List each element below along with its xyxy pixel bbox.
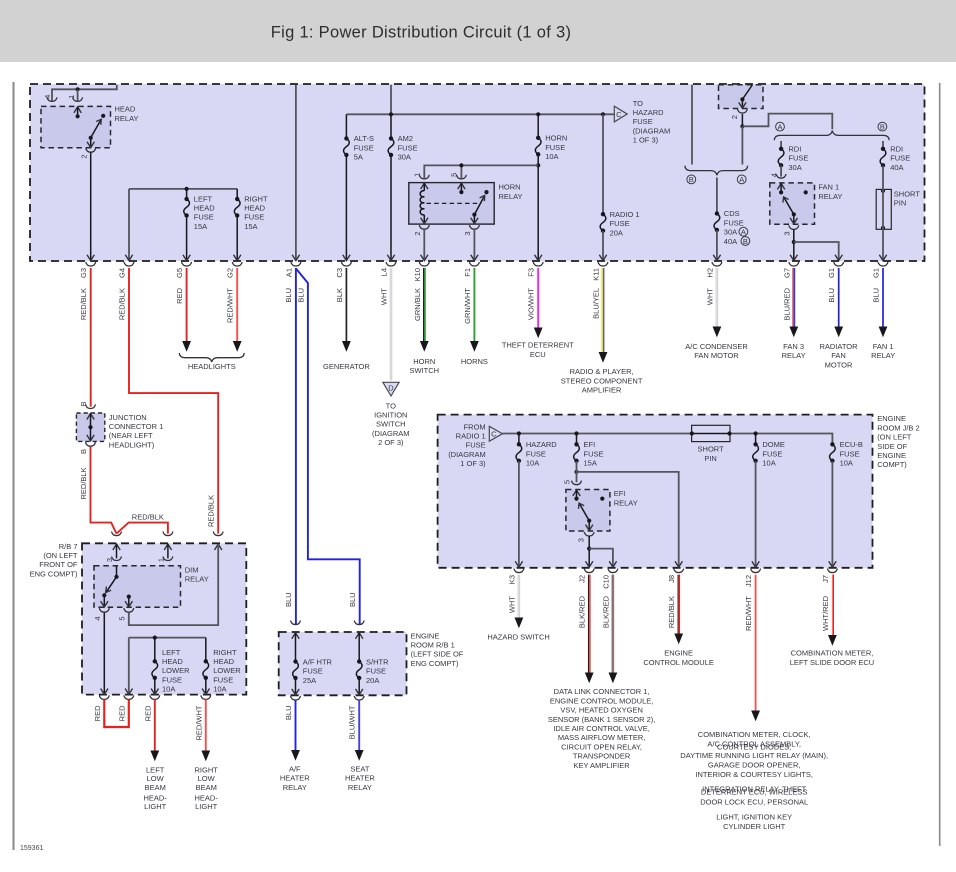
fuse RIGHT HEAD FUSE 15A: [234, 197, 240, 218]
svg-text:TO: TO: [633, 99, 643, 108]
left page border: [13, 82, 15, 850]
svg-text:WHT: WHT: [705, 288, 714, 305]
svg-text:ENGINE: ENGINE: [877, 451, 906, 460]
svg-text:BLU/WHT: BLU/WHT: [348, 705, 357, 739]
svg-text:KEY AMPLIFIER: KEY AMPLIFIER: [574, 761, 631, 770]
svg-text:FUSE: FUSE: [244, 213, 264, 222]
svg-text:MASS AIRFLOW METER,: MASS AIRFLOW METER,: [558, 733, 646, 742]
svg-text:(LEFT SIDE OF: (LEFT SIDE OF: [411, 650, 464, 659]
svg-text:GENERATOR: GENERATOR: [323, 362, 370, 371]
MAIN TOP BOX: [30, 84, 925, 261]
svg-text:RED/BLK: RED/BLK: [667, 596, 676, 628]
svg-text:B: B: [79, 401, 88, 406]
connector L4: [386, 262, 396, 266]
connector J7: [828, 569, 838, 573]
svg-text:HEAD: HEAD: [194, 204, 215, 213]
node: hazard fuse junction: [517, 431, 521, 435]
svg-text:FUSE: FUSE: [610, 219, 630, 228]
fuse HAZARD FUSE 10A: [518, 434, 520, 445]
svg-text:(NEAR LEFT: (NEAR LEFT: [109, 431, 153, 440]
svg-text:RED: RED: [117, 705, 126, 721]
svg-text:HAZARD: HAZARD: [526, 440, 557, 449]
wire: G4 RED/BLK to R/B7: [129, 268, 218, 534]
svg-text:LOWER: LOWER: [213, 666, 241, 675]
wire: BLU/WHT to seat heater relay: [358, 700, 360, 750]
node: AM2 bus junction: [389, 112, 393, 116]
svg-text:(ON LEFT: (ON LEFT: [43, 551, 78, 560]
svg-text:1: 1: [156, 558, 165, 562]
svg-text:COMBINATION METER, CLOCK,: COMBINATION METER, CLOCK,: [698, 730, 811, 739]
svg-text:SHORT: SHORT: [894, 189, 921, 198]
node: efi pin3 branch junction: [587, 547, 591, 551]
node: EFI fuse junction: [574, 431, 578, 435]
svg-text:G7: G7: [782, 268, 791, 278]
fan1 relay pin4 contact: [777, 184, 784, 190]
svg-text:2 OF 3): 2 OF 3): [378, 438, 404, 447]
svg-text:FUSE: FUSE: [584, 449, 604, 458]
svg-text:LOW: LOW: [198, 774, 216, 783]
svg-text:2: 2: [413, 231, 422, 235]
svg-text:RELAY: RELAY: [871, 351, 895, 360]
svg-text:IGNITION: IGNITION: [374, 411, 407, 420]
svg-text:RDI: RDI: [788, 145, 801, 154]
svg-text:EFI: EFI: [614, 489, 626, 498]
wire: G7 BLU/RED to fan3 relay: [792, 268, 794, 327]
wire: K3 WHT to hazard switch: [518, 575, 520, 618]
svg-text:LOW: LOW: [147, 774, 165, 783]
svg-text:K11: K11: [592, 268, 601, 281]
wire: RED to left low beam: [154, 700, 156, 751]
svg-text:A: A: [777, 122, 782, 131]
svg-text:CYLINDER LIGHT: CYLINDER LIGHT: [723, 822, 786, 831]
svg-text:10A: 10A: [213, 685, 226, 694]
wire: G3 RED/BLK to junction connector: [90, 268, 92, 407]
svg-text:HEAD-: HEAD-: [195, 793, 219, 802]
svg-text:20A: 20A: [366, 676, 379, 685]
wire: radio fuse to K11 exit: [602, 231, 604, 260]
connector J2: [584, 569, 594, 573]
svg-text:WHT/RED: WHT/RED: [821, 595, 830, 631]
svg-text:4: 4: [769, 173, 778, 177]
wire: RDI40/short pin to G1 exit: [882, 166, 884, 260]
wire: L4 WHT to ignition switch: [390, 268, 392, 381]
svg-text:STEREO COMPONENT: STEREO COMPONENT: [561, 376, 643, 385]
svg-text:RELAY: RELAY: [499, 192, 523, 201]
svg-text:BLU: BLU: [284, 592, 293, 607]
svg-text:G1: G1: [872, 268, 881, 278]
node letter B (circled): [878, 122, 887, 131]
svg-text:LIGHT: LIGHT: [195, 802, 218, 811]
connector G3: [86, 262, 96, 266]
wire: K10 GRN/BLK to horn switch: [423, 268, 425, 341]
svg-text:DATA LINK CONNECTOR 1,: DATA LINK CONNECTOR 1,: [554, 687, 650, 696]
junction connector 1 box: [76, 413, 104, 441]
svg-text:INTERIOR & COURTESY LIGHTS,: INTERIOR & COURTESY LIGHTS,: [695, 770, 813, 779]
wire: main fuse bus: [346, 113, 614, 115]
wire: J2 BLK/RED to data link: [588, 575, 590, 673]
wire: head relay feed bus: [52, 85, 117, 102]
svg-text:LEFT: LEFT: [162, 648, 181, 657]
svg-text:GARAGE DOOR OPENER,: GARAGE DOOR OPENER,: [708, 761, 801, 770]
fuse HORN FUSE 10A: [537, 114, 539, 138]
relay DIM RELAY box: [94, 566, 181, 608]
svg-text:RADIO 1: RADIO 1: [456, 432, 486, 441]
svg-text:FUSE: FUSE: [840, 449, 860, 458]
wire: ecu-b fuse to J7 exit: [831, 461, 833, 566]
wire: entry1 to dim relay pin 3: [116, 544, 118, 558]
svg-text:2: 2: [80, 154, 89, 158]
wire: RED/BLK junction connector to R/B7: [91, 447, 117, 534]
fuse LEFT HEAD LOWER FUSE 10A: [154, 638, 156, 662]
efi relay pin 3: [588, 521, 590, 531]
connector entry 3 into R/B7: [213, 532, 223, 536]
svg-text:SWITCH: SWITCH: [410, 366, 440, 375]
svg-text:RIGHT: RIGHT: [195, 765, 219, 774]
wire: horn relay pin2 to K10 exit: [423, 229, 425, 260]
node: fan1 pin3 branch junction: [792, 240, 796, 244]
wire: J7 WHT/RED to combination meter: [831, 575, 833, 635]
svg-text:ROOM R/B 1: ROOM R/B 1: [411, 641, 455, 650]
svg-text:RADIO & PLAYER,: RADIO & PLAYER,: [570, 367, 634, 376]
relay HORN RELAY box: [409, 183, 494, 225]
svg-text:FUSE: FUSE: [788, 154, 808, 163]
connector symbol D to ignition switch: [383, 382, 399, 396]
svg-text:ENGINE: ENGINE: [877, 414, 906, 423]
short pin (fan circuit): [876, 189, 891, 229]
svg-text:HEADLIGHTS: HEADLIGHTS: [188, 362, 236, 371]
connector C10: [608, 569, 618, 573]
fuse EFI FUSE 15A: [576, 434, 578, 445]
pin 1 connector of head relay: [73, 97, 83, 101]
wire: efi pin3 to J2 exit: [588, 536, 590, 566]
svg-text:BLU: BLU: [284, 288, 293, 303]
svg-text:C10: C10: [601, 575, 610, 589]
svg-text:A/F HTR: A/F HTR: [303, 657, 333, 666]
pin 5 connector of horn relay: [457, 175, 467, 179]
svg-text:SIDE OF: SIDE OF: [877, 442, 907, 451]
pin 4 connector of fan1 relay: [776, 174, 786, 178]
svg-text:DAYTIME RUNNING LIGHT RELAY (M: DAYTIME RUNNING LIGHT RELAY (MAIN),: [680, 751, 828, 760]
svg-text:ENGINE CONTROL MODULE,: ENGINE CONTROL MODULE,: [550, 696, 653, 705]
wire: feed to RDI brace: [742, 114, 832, 130]
wire: left lower fuse to exit 3: [154, 678, 156, 693]
svg-text:30A: 30A: [788, 163, 801, 172]
svg-text:VIO/WHT: VIO/WHT: [527, 288, 536, 320]
connector entry 1 of R/B1: [291, 621, 301, 625]
dim relay pin3 contact: [116, 566, 118, 576]
svg-text:H2: H2: [705, 268, 714, 278]
efi relay pin5 contact: [573, 490, 580, 496]
connector entry 1 into R/B7: [112, 532, 122, 536]
wire: head relay pin2 to G3 exit: [90, 153, 92, 260]
node letter B (circled) left brace: [687, 175, 696, 184]
svg-text:FUSE: FUSE: [633, 117, 653, 126]
svg-text:K10: K10: [413, 268, 422, 281]
fan1 relay fixed contact: [804, 190, 808, 194]
wire: top right relay pin2 drop: [741, 114, 743, 126]
node: horn fuse bus junction: [536, 112, 540, 116]
svg-text:ROOM J/B 2: ROOM J/B 2: [877, 423, 920, 432]
connector G2: [232, 262, 242, 266]
svg-text:FUSE: FUSE: [526, 449, 546, 458]
svg-text:A/F: A/F: [289, 765, 301, 774]
svg-text:RED/BLK: RED/BLK: [79, 467, 88, 499]
svg-text:RED/BLK: RED/BLK: [118, 288, 127, 320]
wire: F3 VIO/WHT to theft deterrent ecu: [537, 268, 539, 328]
svg-text:G1: G1: [827, 268, 836, 278]
header bar: [0, 0, 956, 62]
connector G4: [124, 262, 134, 266]
svg-text:RADIO 1: RADIO 1: [610, 210, 640, 219]
horn relay pin5 contact: [458, 183, 465, 189]
svg-text:ENG COMPT): ENG COMPT): [30, 569, 78, 578]
svg-text:4: 4: [43, 95, 52, 99]
svg-text:CONTROL MODULE: CONTROL MODULE: [643, 658, 714, 667]
head relay switch: [89, 136, 93, 140]
svg-text:(ON LEFT: (ON LEFT: [877, 433, 912, 442]
svg-text:A: A: [741, 228, 746, 237]
efi relay switch: [579, 503, 589, 521]
wire: horn fuse to F3 exit: [537, 155, 539, 260]
pin 4 connector of head relay: [47, 97, 57, 101]
connector symbol C to hazard fuse: [614, 106, 627, 122]
head relay pin 2: [90, 138, 92, 147]
svg-text:FUSE: FUSE: [303, 667, 323, 676]
wire: pin4 to exit 1: [103, 613, 105, 694]
connector symbol C from radio 1 fuse: [489, 426, 502, 441]
dim relay pin 5: [127, 595, 131, 599]
svg-text:RIGHT: RIGHT: [244, 194, 268, 203]
svg-text:ECU: ECU: [530, 350, 546, 359]
svg-text:PIN: PIN: [704, 454, 717, 463]
svg-text:FUSE: FUSE: [545, 143, 565, 152]
horn relay switch: [472, 213, 476, 217]
wire: branch to C10 exit: [589, 549, 613, 566]
wire: A/F fuse to exit: [295, 677, 297, 694]
svg-text:40A: 40A: [724, 237, 737, 246]
svg-text:RELAY: RELAY: [185, 575, 209, 584]
wire: hazard fuse to K3 exit: [518, 461, 520, 566]
svg-text:15A: 15A: [584, 459, 597, 468]
fuse S/HTR FUSE 20A: [356, 633, 363, 639]
connector entry 2 into R/B7: [163, 532, 173, 536]
node letter A (circled): [776, 122, 785, 131]
svg-text:FUSE: FUSE: [890, 154, 910, 163]
svg-text:ALT-S: ALT-S: [354, 134, 374, 143]
svg-text:HORN: HORN: [545, 134, 567, 143]
svg-text:SENSOR (BANK 1 SENSOR 2),: SENSOR (BANK 1 SENSOR 2),: [548, 715, 656, 724]
connector G7: [789, 262, 799, 266]
svg-text:1: 1: [412, 173, 421, 177]
wire: K11 BLU/YEL to radio: [601, 268, 603, 352]
svg-text:1 OF 3): 1 OF 3): [633, 136, 659, 145]
head relay pin1 contact: [74, 107, 81, 113]
svg-text:4: 4: [93, 616, 102, 620]
svg-text:1: 1: [67, 95, 76, 99]
svg-text:15A: 15A: [194, 222, 207, 231]
svg-text:Fig 1: Power Distribution Circ: Fig 1: Power Distribution Circuit (1 of …: [271, 24, 572, 42]
node letter A (circled) left brace: [737, 175, 746, 184]
svg-text:HAZARD: HAZARD: [633, 108, 664, 117]
svg-text:B: B: [880, 122, 885, 131]
svg-text:SWITCH: SWITCH: [376, 420, 406, 429]
dim relay switch: [106, 577, 116, 592]
FOURTH BOX: ENGINE ROOM R/B 1: [279, 632, 407, 695]
wire: RED/WHT to right low beam: [205, 700, 207, 751]
svg-text:J12: J12: [744, 575, 753, 587]
svg-text:PIN: PIN: [894, 199, 907, 208]
svg-text:LIGHT, IGNITION KEY: LIGHT, IGNITION KEY: [716, 813, 792, 822]
svg-text:CIRCUIT OPEN RELAY,: CIRCUIT OPEN RELAY,: [561, 742, 642, 751]
svg-text:K3: K3: [507, 575, 516, 584]
svg-text:3: 3: [105, 558, 114, 562]
svg-text:DIM: DIM: [185, 565, 199, 574]
wire: top right relay junction to brace: [741, 126, 743, 164]
svg-text:5: 5: [563, 480, 572, 484]
svg-text:HEATER: HEATER: [345, 774, 375, 783]
svg-text:5: 5: [449, 173, 458, 177]
svg-text:SHORT: SHORT: [698, 445, 725, 454]
fuse RDI FUSE 30A: [780, 141, 782, 149]
svg-text:CDS: CDS: [724, 209, 740, 218]
connector J8: [674, 569, 684, 573]
svg-text:GRN/WHT: GRN/WHT: [463, 288, 472, 324]
svg-text:LEFT: LEFT: [194, 194, 213, 203]
svg-text:HAZARD SWITCH: HAZARD SWITCH: [487, 633, 550, 642]
svg-text:159361: 159361: [20, 845, 43, 852]
svg-text:FUSE: FUSE: [194, 213, 214, 222]
fuse CDS FUSE 30A/40A: [716, 178, 718, 214]
svg-text:(DIAGRAM: (DIAGRAM: [633, 126, 671, 135]
svg-text:10A: 10A: [162, 685, 175, 694]
connector exit 4 of R/B7: [201, 695, 211, 699]
fuse ALT-S FUSE 5A: [345, 114, 347, 138]
junction connector 1 internal wire: [87, 414, 94, 420]
connector exit 1 of R/B1: [291, 696, 301, 700]
fuse AM2 FUSE 30A: [390, 114, 392, 138]
connector F1: [470, 262, 480, 266]
brace: RDI fuse options A/B: [774, 131, 889, 141]
svg-text:DETERRENT ECU, WIRELESS: DETERRENT ECU, WIRELESS: [701, 788, 808, 797]
wire: horn relay pin3 to F1 exit: [473, 229, 475, 260]
connector B bottom of junction connector 1: [86, 442, 96, 446]
svg-text:C: C: [616, 110, 622, 119]
svg-text:B: B: [79, 449, 88, 454]
wire: G5 RED to headlights: [186, 268, 188, 341]
svg-text:10A: 10A: [762, 459, 775, 468]
short pin (J/B2): [692, 425, 730, 441]
wire: RDI30 to fan1 relay pin4: [780, 166, 782, 177]
svg-text:25A: 25A: [303, 676, 316, 685]
svg-text:RELAY: RELAY: [818, 192, 842, 201]
svg-text:G2: G2: [226, 268, 235, 278]
svg-text:F1: F1: [463, 268, 472, 277]
svg-text:J8: J8: [667, 575, 676, 583]
fuse LEFT HEAD FUSE 15A: [186, 189, 188, 199]
wire: head fuse feed bus: [129, 188, 237, 190]
top right relay pin 2: [741, 99, 743, 107]
svg-text:GRN/BLK: GRN/BLK: [413, 288, 422, 321]
connector F3: [533, 262, 543, 266]
svg-text:2: 2: [730, 115, 739, 119]
svg-text:RELAY: RELAY: [782, 351, 806, 360]
svg-text:BEAM: BEAM: [196, 783, 217, 792]
svg-text:HORN: HORN: [499, 183, 521, 192]
svg-text:RELAY: RELAY: [115, 114, 139, 123]
svg-text:BLU: BLU: [284, 706, 293, 721]
wire: J8 RED/BLK to engine control module: [677, 575, 679, 634]
svg-text:HEAD: HEAD: [115, 105, 136, 114]
svg-text:LOWER: LOWER: [162, 666, 190, 675]
svg-text:G3: G3: [79, 268, 88, 278]
svg-text:RELAY: RELAY: [348, 783, 372, 792]
svg-text:RELAY: RELAY: [614, 498, 638, 507]
top right relay switch: [743, 85, 752, 98]
svg-text:40A: 40A: [890, 163, 903, 172]
svg-text:J7: J7: [821, 575, 830, 583]
svg-text:HORN: HORN: [413, 357, 435, 366]
wire: RED u-link exits 1-2: [104, 700, 129, 728]
node: lower fuse bus junction: [153, 636, 157, 640]
node: radio fuse bus junction: [601, 112, 605, 116]
svg-text:COMPT): COMPT): [877, 460, 907, 469]
wire: RED/BLK split to second feed: [117, 523, 168, 534]
svg-text:20A: 20A: [610, 228, 623, 237]
svg-text:10A: 10A: [840, 459, 853, 468]
connector H2: [712, 262, 722, 266]
svg-text:LEFT: LEFT: [146, 765, 165, 774]
connector K10: [419, 262, 429, 266]
connector exit 2 of R/B7: [124, 695, 134, 699]
wire: A1 BLU right to R/B1: [296, 269, 360, 625]
relay (unlabeled, top right) box: [719, 85, 764, 109]
wire: A1 vertical feed: [295, 85, 297, 260]
svg-text:10A: 10A: [526, 459, 539, 468]
THIRD BOX: R/B 7: [82, 543, 246, 694]
fuse RDI FUSE 40A: [882, 141, 884, 149]
relay FAN 1 RELAY box: [770, 183, 815, 224]
wire: AM2 fuse to L4 exit: [390, 155, 392, 259]
svg-text:HEAD: HEAD: [244, 204, 265, 213]
node: pin2 junction: [740, 124, 744, 128]
connector K11: [598, 262, 608, 266]
wire: CDS fuse to H2 exit: [716, 230, 718, 259]
svg-text:TRANSPONDER: TRANSPONDER: [573, 752, 631, 761]
svg-text:BLU/RED: BLU/RED: [782, 287, 791, 320]
svg-text:TO: TO: [386, 401, 396, 410]
connector J12: [751, 569, 761, 573]
wire: branch to G1 radiator exit: [794, 242, 839, 260]
svg-text:FAN 1: FAN 1: [873, 342, 894, 351]
svg-text:R/B 7: R/B 7: [59, 542, 78, 551]
svg-text:30A: 30A: [724, 228, 737, 237]
svg-text:BLK/RED: BLK/RED: [601, 595, 610, 628]
svg-text:RED: RED: [93, 705, 102, 721]
connector exit 1 of R/B7: [99, 695, 109, 699]
svg-text:BLU/YEL: BLU/YEL: [592, 288, 601, 319]
svg-text:ENGINE: ENGINE: [664, 649, 693, 658]
svg-text:FAN: FAN: [831, 351, 846, 360]
svg-text:WHT: WHT: [507, 596, 516, 613]
wire: head relay pin1 drop: [77, 89, 79, 101]
wire: main feed bus in J/B2: [503, 434, 833, 445]
wire: right lower fuse to exit 4: [205, 678, 207, 693]
svg-text:RADIATOR: RADIATOR: [819, 342, 858, 351]
svg-text:FUSE: FUSE: [724, 218, 744, 227]
svg-text:G4: G4: [118, 268, 127, 278]
svg-text:C: C: [491, 430, 497, 439]
svg-text:15A: 15A: [244, 222, 257, 231]
